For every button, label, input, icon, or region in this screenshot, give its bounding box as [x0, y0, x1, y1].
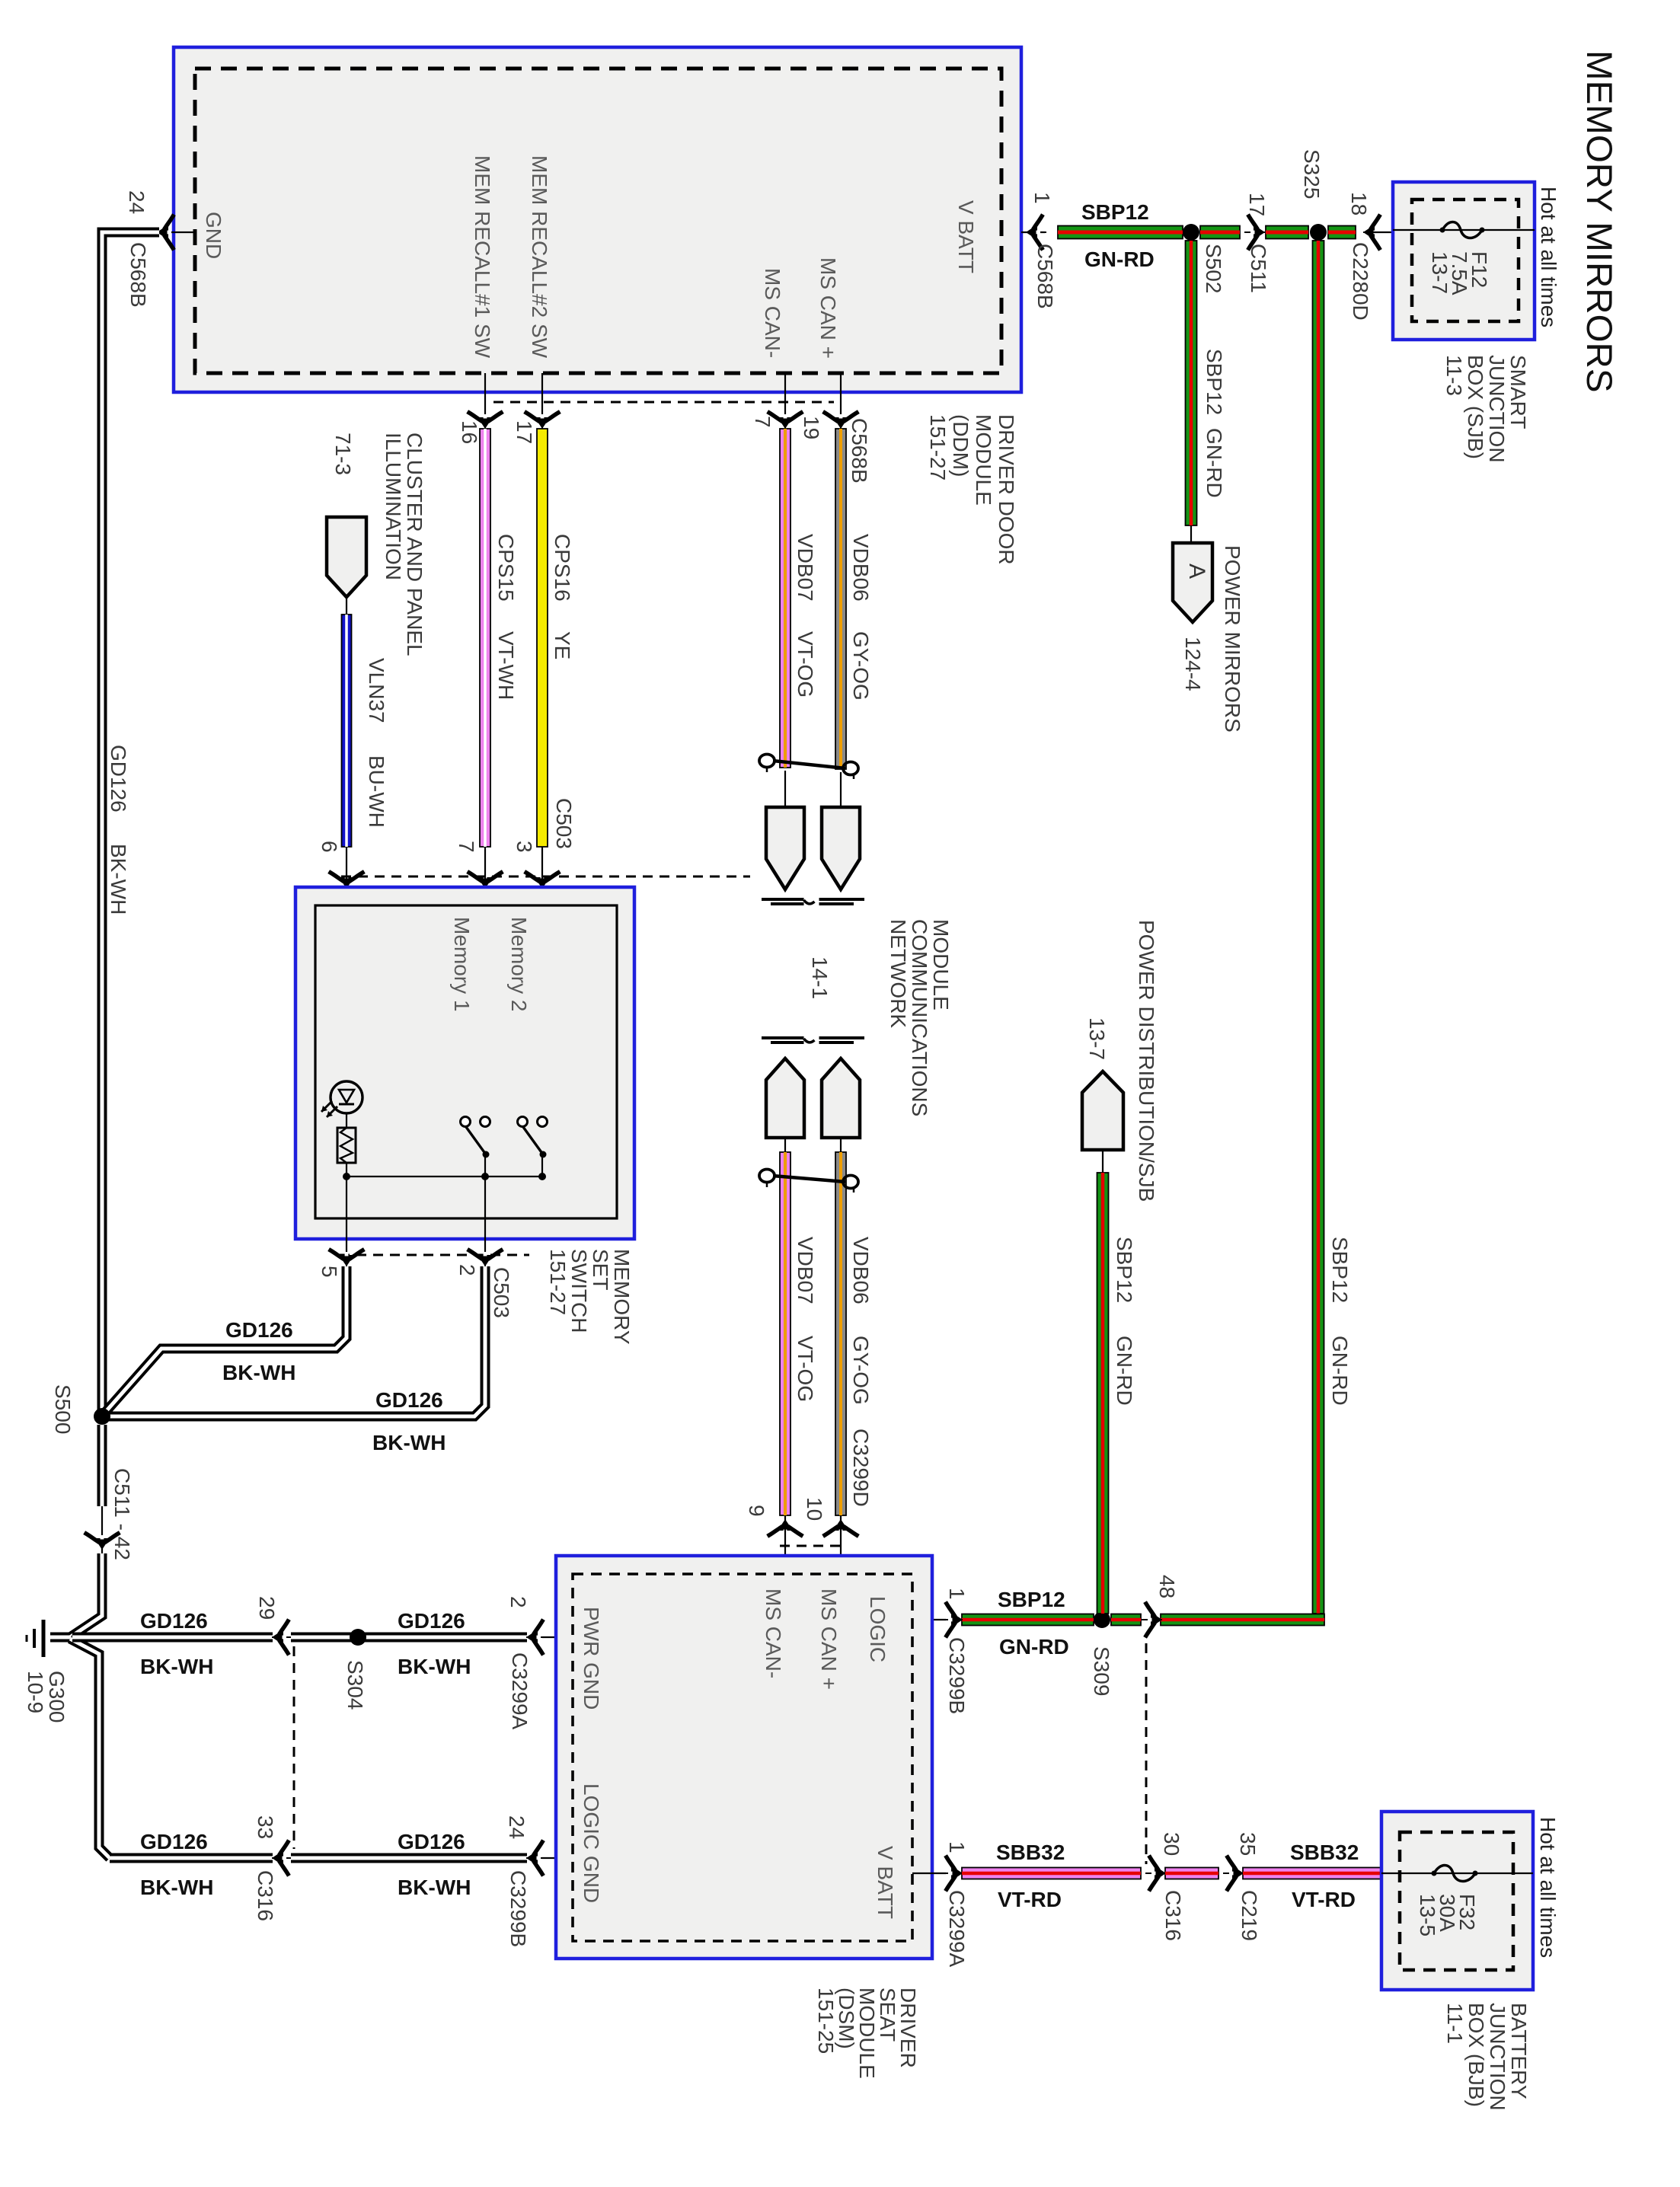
svg-text:BATTERY: BATTERY [1507, 2003, 1531, 2099]
switch Memory 2 contacts [518, 1117, 528, 1127]
connector arrow pin 19 [825, 408, 857, 429]
wire SBP12 GN-RD long vertical from S325 [1313, 241, 1324, 1614]
offpage connector A POWER MIRRORS [1173, 543, 1212, 622]
module DSM dashed connector outline [573, 1574, 912, 1941]
connector arrow pin 33 [272, 1842, 292, 1874]
lamp illumination LED [331, 1081, 363, 1113]
lead pin7 into switch [484, 847, 486, 1122]
leads into DSM [784, 1515, 786, 1574]
svg-text:C2280D: C2280D [1349, 242, 1372, 321]
lead pin6 into switch [346, 847, 347, 1081]
module DDM dashed connector outline [195, 69, 1001, 373]
connector arrow C3299B pin 1 LOGIC [942, 1604, 963, 1636]
svg-text:SBB32: SBB32 [1290, 1841, 1359, 1864]
svg-text:151-27: 151-27 [546, 1249, 570, 1315]
svg-text:C3299D: C3299D [849, 1429, 873, 1507]
svg-text:SBP12: SBP12 [998, 1588, 1065, 1611]
connector arrow C3299B pin 24 [526, 1842, 547, 1874]
svg-text:14-1: 14-1 [808, 956, 832, 999]
switch internal bus [347, 1176, 542, 1177]
dashed link arrow29 to arrow33 [293, 1646, 295, 1849]
svg-text:MEMORY MIRRORS: MEMORY MIRRORS [1579, 50, 1619, 393]
svg-text:BU-WH: BU-WH [365, 755, 388, 828]
svg-text:2: 2 [506, 1596, 530, 1608]
svg-text:SBP12: SBP12 [1081, 200, 1149, 224]
svg-text:BK-WH: BK-WH [372, 1431, 446, 1454]
svg-text:17: 17 [513, 420, 536, 444]
svg-text:S309: S309 [1090, 1646, 1113, 1696]
svg-text:GY-OG: GY-OG [849, 1336, 873, 1405]
svg-text:151-27: 151-27 [926, 414, 950, 481]
svg-text:MS CAN +: MS CAN + [817, 1588, 841, 1690]
ground symbol G300 [42, 1620, 46, 1657]
connector arrow C3299A pin 1 [942, 1857, 963, 1889]
svg-text:VT-RD: VT-RD [1292, 1888, 1356, 1911]
svg-text:71-3: 71-3 [331, 433, 355, 475]
LOGIC pin stub [912, 1619, 946, 1620]
connector arrow pin 17 [526, 408, 558, 429]
wire VLN37 BU-WH [342, 615, 352, 847]
svg-text:GN-RD: GN-RD [1203, 428, 1226, 498]
svg-text:GN-RD: GN-RD [999, 1635, 1069, 1659]
svg-text:V BATT: V BATT [954, 200, 978, 273]
wire GD126 lower run second segment [291, 1853, 527, 1863]
svg-text:POWER DISTRIBUTION/SJB: POWER DISTRIBUTION/SJB [1135, 920, 1158, 1202]
svg-text:C568B: C568B [126, 242, 150, 308]
svg-text:G300: G300 [45, 1671, 69, 1723]
svg-text:29: 29 [255, 1596, 279, 1620]
wire SBP12 corner to S309 [1161, 1614, 1324, 1626]
svg-text:VDB06: VDB06 [849, 1237, 873, 1304]
svg-text:BK-WH: BK-WH [107, 844, 130, 915]
svg-text:Memory 1: Memory 1 [450, 917, 474, 1011]
svg-text:2: 2 [455, 1264, 479, 1276]
svg-text:MEM RECALL#1 SW: MEM RECALL#1 SW [471, 155, 494, 359]
wire SBP12 GN-RD segment C511 to S325 [1266, 226, 1308, 239]
wire SBP12 GN-RD segment S325 to C2280D [1328, 226, 1356, 239]
svg-text:Memory 2: Memory 2 [507, 917, 531, 1011]
wire CPS16 YE [537, 429, 548, 847]
offpage connector POWER DISTRIBUTION/SJB [1082, 1071, 1123, 1150]
svg-text:6: 6 [318, 841, 341, 853]
svg-text:C219: C219 [1238, 1890, 1261, 1941]
connector dashed line C503 below switch [340, 1254, 529, 1256]
svg-text:30: 30 [1160, 1832, 1183, 1856]
wire through SJB [1393, 229, 1535, 231]
svg-text:GN-RD: GN-RD [1084, 247, 1155, 271]
wire through BJB [1381, 1873, 1533, 1874]
svg-text:9: 9 [745, 1505, 768, 1517]
splice S309 [1094, 1611, 1110, 1628]
twisted pair crossover lower [773, 1176, 845, 1182]
connector arrow pin 7 [769, 408, 801, 429]
wire GD126 upper run S304 segment [291, 1633, 527, 1643]
network connector pentagon right [822, 807, 860, 889]
wire BK-WH S500 to C511 [97, 1425, 107, 1506]
svg-text:C3299A: C3299A [508, 1652, 532, 1730]
connector dashed line C3299D [780, 1545, 846, 1547]
wire VDB06 GY-OG lower [835, 1152, 846, 1515]
svg-text:Hot at all times: Hot at all times [1536, 1817, 1560, 1958]
lead pin3 into switch [541, 847, 543, 1122]
connector arrow C568B pin 24 [157, 216, 177, 248]
svg-text:VT-OG: VT-OG [794, 631, 817, 698]
wire SBB32 VT-RD segment 2 [1165, 1868, 1218, 1879]
svg-text:BOX (BJB): BOX (BJB) [1464, 2003, 1488, 2107]
wire GD126 BK-WH lower run [110, 1853, 273, 1863]
svg-text:POWER MIRRORS: POWER MIRRORS [1221, 545, 1244, 733]
PWR GND stub [542, 1636, 573, 1638]
wire SBP12 GN-RD S502 branch down [1186, 241, 1197, 525]
svg-text:13-7: 13-7 [1428, 251, 1452, 294]
fuse F32 30A symbol [1434, 1866, 1475, 1882]
network connector pentagon left [766, 807, 804, 889]
svg-text:C511: C511 [1247, 244, 1270, 293]
svg-text:S325: S325 [1300, 149, 1324, 199]
lead to POWER MIRRORS connector [1190, 525, 1192, 543]
splice S325 [1310, 224, 1327, 241]
svg-text:C503: C503 [552, 798, 576, 849]
svg-text:124-4: 124-4 [1181, 637, 1205, 691]
svg-text:C3299B: C3299B [506, 1870, 530, 1947]
connector dashed line C503 above switch [341, 876, 750, 878]
svg-text:SBP12: SBP12 [1203, 349, 1226, 415]
connector arrow switch pin 2 [469, 1246, 501, 1266]
svg-text:10-9: 10-9 [24, 1671, 47, 1713]
svg-text:(DDM): (DDM) [949, 414, 973, 477]
connector arrow C316 pin 30 [1145, 1857, 1166, 1889]
svg-text:Hot at all times: Hot at all times [1537, 187, 1560, 327]
connector arrow DSM pin 9 [769, 1519, 801, 1540]
fuse F12 7.5A symbol [1442, 222, 1482, 238]
network connector pentagon lower right [822, 1058, 860, 1138]
connector arrow C219 pin 35 [1223, 1857, 1244, 1889]
svg-text:MODULE: MODULE [972, 414, 995, 506]
svg-text:S304: S304 [343, 1660, 367, 1710]
svg-text:GD126: GD126 [398, 1830, 465, 1853]
svg-text:3: 3 [513, 841, 536, 853]
svg-text:C3299A: C3299A [945, 1890, 969, 1968]
svg-text:19: 19 [800, 416, 823, 439]
svg-text:CPS15: CPS15 [494, 534, 518, 602]
pin 19 stub DDM [840, 373, 842, 426]
svg-text:SBP12: SBP12 [1328, 1237, 1352, 1303]
svg-text:13-5: 13-5 [1416, 1894, 1439, 1936]
connector arrow C3299A pin 2 [526, 1621, 547, 1653]
svg-text:10: 10 [803, 1497, 826, 1521]
svg-text:MS CAN-: MS CAN- [762, 1588, 785, 1678]
wire GD126 BK-WH pin2 run [107, 1266, 485, 1416]
wire SBB32 VT-RD segment 1 [962, 1868, 1141, 1879]
svg-text:18: 18 [1347, 192, 1371, 216]
svg-text:PWR GND: PWR GND [580, 1607, 603, 1710]
pin 7 stub DDM [784, 373, 786, 426]
splice S500 [94, 1408, 110, 1425]
svg-text:7: 7 [751, 416, 775, 428]
svg-text:11-1: 11-1 [1443, 2003, 1467, 2044]
svg-text:A: A [1184, 564, 1209, 579]
pin 16 stub [484, 373, 486, 426]
module DDM box [174, 47, 1021, 392]
lead pin5 out of switch [346, 1177, 347, 1255]
wire SBP12 GN-RD segment DDM to S502 [1058, 226, 1183, 239]
svg-text:CLUSTER AND PANEL: CLUSTER AND PANEL [403, 433, 426, 656]
pin 1 V BATT wire stub [1021, 231, 1045, 233]
wire SBB32 VT-RD segment 3 [1243, 1868, 1381, 1879]
svg-text:35: 35 [1236, 1832, 1260, 1856]
lead from pentagon [1102, 1150, 1103, 1173]
wire into SJB fuse box [1365, 231, 1393, 233]
svg-text:VLN37: VLN37 [365, 658, 388, 723]
svg-text:BK-WH: BK-WH [140, 1655, 213, 1678]
svg-text:11-3: 11-3 [1442, 355, 1466, 396]
svg-text:GD126: GD126 [225, 1318, 293, 1342]
offpage connector CLUSTER AND PANEL ILLUMINATION [327, 517, 366, 597]
svg-text:1: 1 [1030, 192, 1054, 204]
connector arrow switch pin 5 [331, 1246, 363, 1266]
svg-text:MODULE: MODULE [929, 919, 953, 1010]
svg-text:GD126: GD126 [375, 1388, 443, 1412]
svg-text:S500: S500 [51, 1384, 75, 1434]
wire SBP12 GN-RD pentagon to S309 [1097, 1173, 1109, 1614]
svg-text:151-25: 151-25 [814, 1987, 838, 2054]
twisted pair crossover upper [773, 761, 845, 768]
wire CPS15 VT-WH [480, 429, 490, 847]
connector arrow DSM pin 10 [825, 1519, 857, 1540]
svg-text:16: 16 [458, 420, 481, 444]
svg-text:BK-WH: BK-WH [222, 1361, 295, 1384]
svg-text:MEM RECALL#2 SW: MEM RECALL#2 SW [528, 155, 551, 359]
svg-text:NETWORK: NETWORK [886, 919, 910, 1028]
svg-text:MS CAN +: MS CAN + [816, 257, 840, 359]
fusebox BJB [1381, 1812, 1533, 1990]
svg-text:C568B: C568B [1033, 244, 1057, 309]
connector C511-42 inline [101, 1506, 103, 1553]
break symbol upper [762, 898, 804, 901]
splice S502 [1183, 224, 1199, 241]
connector arrow pin 16 [469, 408, 501, 429]
leads to network connectors [784, 771, 786, 807]
switch MEMORY SET SWITCH box [295, 887, 634, 1239]
svg-text:13-7: 13-7 [1085, 1017, 1109, 1060]
resistor in switch [337, 1128, 356, 1163]
svg-text:24: 24 [505, 1815, 529, 1839]
svg-text:V BATT: V BATT [874, 1846, 897, 1919]
svg-text:BK-WH: BK-WH [140, 1876, 213, 1899]
pin 17 stub [541, 373, 543, 426]
connector arrow C568B pin 1 [1026, 216, 1046, 248]
wire VDB06 GY-OG upper [835, 429, 846, 769]
connector dashed line C568B under DDM [493, 401, 834, 404]
fusebox SJB [1393, 182, 1535, 340]
svg-text:ILLUMINATION: ILLUMINATION [382, 433, 405, 580]
switch inner case [315, 905, 617, 1218]
V BATT pin stub [912, 1873, 946, 1874]
svg-text:JUNCTION: JUNCTION [1485, 355, 1509, 463]
svg-text:24: 24 [125, 190, 149, 214]
switch Memory 1 contacts [461, 1117, 471, 1127]
svg-text:VDB07: VDB07 [794, 534, 817, 602]
wire VDB07 VT-OG lower [780, 1152, 790, 1515]
svg-text:GY-OG: GY-OG [849, 631, 873, 701]
svg-text:BK-WH: BK-WH [398, 1655, 471, 1678]
svg-text:GD126: GD126 [140, 1609, 208, 1633]
svg-text:MEMORY: MEMORY [610, 1249, 634, 1345]
lead from pentagon [346, 597, 347, 615]
svg-text:SMART: SMART [1506, 355, 1530, 429]
wire SBP12 S309 to arrow 48 [1111, 1614, 1141, 1626]
wire GD126 BK-WH left main run [102, 232, 159, 1411]
svg-text:7: 7 [455, 841, 478, 853]
svg-text:GN-RD: GN-RD [1113, 1336, 1136, 1406]
svg-text:C511 - 42: C511 - 42 [110, 1468, 134, 1560]
lead lamp to bus [346, 1113, 347, 1128]
connector arrow pin 29 [272, 1621, 292, 1653]
svg-text:1: 1 [945, 1841, 969, 1853]
svg-text:GD126: GD126 [398, 1609, 465, 1633]
svg-text:SET: SET [589, 1249, 612, 1290]
svg-text:VDB06: VDB06 [849, 534, 873, 602]
connector arrow switch pin 3 [526, 868, 558, 889]
svg-text:VT-WH: VT-WH [494, 631, 518, 700]
svg-text:SWITCH: SWITCH [567, 1249, 591, 1333]
svg-text:5: 5 [318, 1266, 341, 1278]
svg-text:GN-RD: GN-RD [1328, 1336, 1352, 1406]
pin 24 GND wire stub [163, 231, 195, 233]
wire SBP12 GN-RD segment S502 to C511 [1200, 226, 1240, 239]
connector arrow C511 pin 17 [1244, 216, 1265, 248]
dashed link arrow48 to arrow30 [1145, 1643, 1148, 1864]
svg-text:SBP12: SBP12 [1113, 1237, 1136, 1303]
wire BK-WH C511 to ground junction [50, 1553, 102, 1637]
svg-text:17: 17 [1245, 193, 1269, 216]
svg-text:MS CAN-: MS CAN- [761, 268, 784, 358]
wire GD126 BK-WH upper run to PWR GND [72, 1633, 273, 1643]
break symbol lower [762, 1036, 804, 1039]
svg-text:C316: C316 [1161, 1890, 1185, 1941]
svg-text:C503: C503 [490, 1267, 513, 1318]
wire GD126 BK-WH pin5 run [104, 1266, 347, 1414]
svg-text:VDB07: VDB07 [794, 1237, 817, 1304]
svg-text:LOGIC GND: LOGIC GND [580, 1783, 603, 1903]
svg-text:CPS16: CPS16 [551, 534, 574, 602]
svg-text:GD126: GD126 [107, 745, 130, 813]
svg-text:C568B: C568B [848, 418, 871, 484]
svg-text:GD126: GD126 [140, 1830, 208, 1853]
svg-text:DRIVER DOOR: DRIVER DOOR [995, 414, 1018, 565]
svg-text:BOX (SJB): BOX (SJB) [1464, 355, 1487, 459]
svg-text:33: 33 [254, 1815, 277, 1839]
leads from network connectors [784, 1138, 786, 1157]
svg-text:VT-OG: VT-OG [794, 1336, 817, 1402]
lead pin2 out of switch [484, 1177, 486, 1255]
connector arrow switch pin 7 [469, 868, 501, 889]
svg-text:1: 1 [945, 1588, 969, 1600]
svg-text:SBB32: SBB32 [996, 1841, 1065, 1864]
network connector pentagon lower left [766, 1058, 804, 1138]
svg-text:COMMUNICATIONS: COMMUNICATIONS [908, 919, 931, 1116]
wire GD126 BK-WH ground to S304 run [70, 1639, 110, 1858]
svg-text:C316: C316 [254, 1870, 277, 1921]
svg-text:C3299B: C3299B [945, 1637, 969, 1714]
connector arrow switch pin 6 [331, 868, 363, 889]
wire VDB07 VT-OG upper [780, 429, 790, 768]
svg-text:LOGIC: LOGIC [866, 1596, 890, 1662]
svg-text:S502: S502 [1202, 244, 1225, 293]
connector arrow pin 48 [1142, 1604, 1162, 1636]
connector arrow C2280D pin 18 [1363, 216, 1384, 248]
wire SBP12 DSM LOGIC to S309 [962, 1614, 1094, 1626]
splice S304 [350, 1629, 366, 1646]
svg-text:JUNCTION: JUNCTION [1486, 2003, 1509, 2111]
svg-text:48: 48 [1155, 1575, 1179, 1598]
svg-text:GND: GND [202, 212, 225, 259]
LOGIC GND stub [542, 1857, 573, 1859]
svg-text:BK-WH: BK-WH [398, 1876, 471, 1899]
svg-text:YE: YE [551, 631, 574, 659]
svg-text:VT-RD: VT-RD [998, 1888, 1062, 1911]
module DSM box [556, 1556, 932, 1959]
